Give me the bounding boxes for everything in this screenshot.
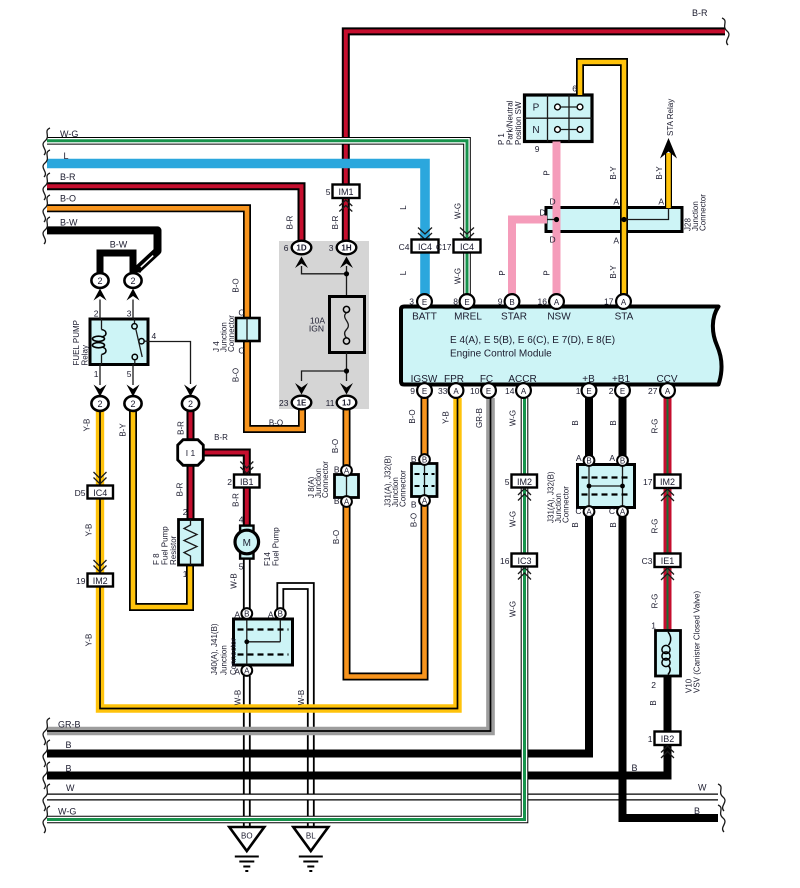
- ECM bottom pin 14 A ACCR: [516, 383, 531, 398]
- svg-text:B-Y: B-Y: [609, 265, 618, 279]
- fuel pump resistor F8: [179, 520, 203, 566]
- wire W-B from fuel pump motor to J40/J41 junction: [243, 555, 251, 609]
- svg-text:B: B: [571, 420, 580, 425]
- svg-text:IM2: IM2: [517, 477, 532, 487]
- wire R-G from ECM CCV to V10 VSV: [664, 398, 672, 631]
- svg-text:W-G: W-G: [509, 601, 518, 617]
- svg-text:VSV (Canister Closed Valve): VSV (Canister Closed Valve): [693, 591, 702, 693]
- svg-text:2: 2: [188, 399, 193, 409]
- svg-text:W: W: [698, 783, 707, 793]
- svg-text:C: C: [609, 506, 615, 516]
- svg-text:1: 1: [94, 369, 99, 379]
- svg-text:B-W: B-W: [60, 218, 78, 228]
- svg-text:5: 5: [239, 562, 244, 572]
- svg-text:A: A: [453, 387, 459, 396]
- svg-text:4: 4: [152, 331, 157, 341]
- svg-text:Resistor: Resistor: [169, 535, 178, 565]
- ECM bottom pin 1 E +B: [582, 383, 597, 398]
- svg-text:A: A: [620, 508, 626, 517]
- svg-text:IE1: IE1: [661, 556, 675, 566]
- svg-text:Engine Control Module: Engine Control Module: [450, 349, 552, 360]
- 10A IGN fuse label: [309, 316, 325, 334]
- svg-text:9: 9: [410, 386, 415, 396]
- svg-text:B-O: B-O: [269, 419, 283, 428]
- svg-text:W-G: W-G: [454, 203, 463, 219]
- svg-text:FPR: FPR: [444, 374, 464, 385]
- svg-text:2: 2: [227, 477, 232, 487]
- svg-text:A: A: [344, 498, 350, 507]
- fuel pump relay box: [90, 319, 148, 365]
- svg-text:NSW: NSW: [547, 312, 571, 323]
- svg-text:D5: D5: [75, 488, 86, 498]
- fuse block oval 1J: [337, 383, 357, 409]
- svg-text:L: L: [399, 270, 408, 275]
- svg-text:A: A: [613, 197, 619, 207]
- svg-text:5: 5: [505, 477, 510, 487]
- ECM name text: [450, 335, 615, 360]
- brace left W-G bus: [43, 128, 50, 155]
- wire W bus: [47, 794, 718, 801]
- svg-text:B-O: B-O: [410, 513, 419, 527]
- svg-text:M: M: [243, 538, 251, 549]
- brace left B bus 2: [43, 762, 50, 789]
- ECM top pin 8 E MREL: [460, 294, 475, 309]
- svg-text:Connector: Connector: [562, 486, 571, 523]
- svg-text:R-G: R-G: [651, 594, 660, 609]
- bus labels right: [631, 8, 708, 816]
- svg-text:A: A: [621, 298, 627, 307]
- relay pin 1 circle and arrow: [91, 364, 108, 411]
- ground BO: [229, 827, 264, 871]
- brace left B-W bus: [43, 217, 50, 244]
- connector 19 IM2 with arrows: [88, 560, 114, 587]
- svg-text:R-G: R-G: [651, 419, 660, 434]
- svg-text:B: B: [620, 457, 625, 466]
- svg-text:16: 16: [538, 297, 548, 307]
- svg-text:P: P: [498, 270, 507, 275]
- svg-text:17: 17: [604, 297, 614, 307]
- svg-text:33: 33: [438, 386, 448, 396]
- svg-text:R-G: R-G: [651, 519, 660, 534]
- connector D5 IC4 with arrows: [88, 472, 114, 499]
- svg-text:1: 1: [651, 621, 656, 631]
- svg-text:6: 6: [572, 84, 577, 94]
- svg-text:B: B: [278, 610, 283, 619]
- svg-text:FC: FC: [480, 374, 493, 385]
- ECM bottom pin 10 E FC: [481, 383, 496, 398]
- svg-text:5: 5: [326, 187, 331, 197]
- J4 junction connector box: [236, 318, 260, 341]
- fuse block oval 1E: [292, 383, 312, 409]
- svg-text:BO: BO: [241, 832, 253, 841]
- svg-text:W-G: W-G: [509, 410, 518, 426]
- svg-text:B-O: B-O: [60, 194, 76, 204]
- wire GR-B from ECM FC to bottom bus: [47, 398, 491, 731]
- wire W-G bus to C17 IC4 and ECM MREL: [47, 141, 467, 294]
- svg-text:MREL: MREL: [454, 312, 482, 323]
- ECM bottom pin 27 A CCV: [660, 383, 675, 398]
- J28 junction connector box: [546, 208, 682, 232]
- svg-text:C: C: [238, 308, 244, 318]
- svg-text:IM1: IM1: [338, 187, 353, 197]
- svg-text:2: 2: [97, 276, 102, 286]
- svg-text:27: 27: [648, 386, 658, 396]
- brace left B-O bus: [43, 195, 50, 222]
- arrowhead to STA relay: [660, 138, 677, 159]
- svg-text:B: B: [411, 454, 417, 464]
- svg-text:A: A: [244, 667, 250, 676]
- svg-text:+B1: +B1: [612, 374, 631, 385]
- brace right top B-R: [722, 18, 729, 45]
- svg-text:A: A: [521, 387, 527, 396]
- svg-text:ACCR: ACCR: [508, 374, 536, 385]
- wire W-B from J40/J41 junction up over and down to ground BL: [280, 586, 311, 827]
- wire B-W bus to fuel pump relay pin 3: [47, 230, 158, 272]
- junction connector octagon I1: [178, 440, 204, 466]
- rotated component names: [72, 99, 708, 693]
- ECM bottom pin 33 A FPR: [449, 383, 464, 398]
- ECM top pin 16 A NSW: [549, 294, 564, 309]
- svg-text:+B: +B: [582, 374, 595, 385]
- svg-text:19: 19: [76, 576, 86, 586]
- relay pin 2 circle and arrow: [91, 273, 108, 319]
- svg-text:D: D: [550, 197, 556, 207]
- svg-text:E: E: [620, 387, 625, 396]
- svg-text:STAR: STAR: [501, 312, 527, 323]
- svg-text:Connector: Connector: [399, 470, 408, 507]
- svg-text:D: D: [550, 235, 556, 245]
- svg-text:6: 6: [284, 243, 289, 253]
- svg-text:B: B: [509, 298, 514, 307]
- J40/J41 junction connector box: [234, 608, 293, 676]
- wire B from V10 VSV to IB2: [664, 675, 672, 732]
- svg-text:BATT: BATT: [412, 312, 437, 323]
- svg-text:W-B: W-B: [230, 573, 239, 588]
- svg-text:W-G: W-G: [60, 129, 78, 139]
- connector C4 IC4 with arrows: [412, 228, 439, 253]
- svg-text:GR-B: GR-B: [475, 408, 484, 428]
- wire B-Y from J28 up to STA relay: [665, 153, 672, 208]
- J28 internal connections: [547, 208, 669, 222]
- svg-text:A: A: [609, 453, 615, 463]
- connector 5 IM2 with arrows: [512, 475, 538, 501]
- svg-text:A: A: [613, 236, 619, 246]
- svg-text:Relay: Relay: [81, 345, 90, 365]
- svg-text:9: 9: [498, 297, 503, 307]
- svg-text:A: A: [554, 298, 560, 307]
- svg-text:3: 3: [127, 309, 132, 319]
- svg-text:B: B: [649, 700, 658, 705]
- svg-text:W-B: W-B: [234, 690, 243, 705]
- svg-text:B-O: B-O: [232, 368, 241, 382]
- fuse block oval 1D: [292, 241, 347, 274]
- wire B bottom bus to V10 VSV via IB2: [47, 743, 668, 776]
- svg-text:2: 2: [609, 386, 614, 396]
- wire B-O bus through J4 junction connector to fuse block 1E: [47, 208, 302, 429]
- svg-text:2: 2: [183, 507, 188, 517]
- wire B-R from I1 right to IB1 and fuel pump: [204, 453, 247, 528]
- svg-text:C: C: [238, 346, 244, 356]
- J31/J32 junction connector box on +B wires: [578, 455, 635, 517]
- svg-text:IM2: IM2: [93, 576, 108, 586]
- svg-text:2: 2: [651, 680, 656, 690]
- svg-text:2: 2: [97, 399, 102, 409]
- svg-text:B: B: [609, 522, 618, 527]
- svg-text:IC4: IC4: [418, 242, 432, 252]
- bus labels left: [58, 129, 81, 817]
- svg-text:Y-B: Y-B: [85, 524, 94, 537]
- svg-text:2: 2: [130, 399, 135, 409]
- fuse block shaded area: [279, 241, 369, 409]
- wire B-R below IM1 to fuse block 1H: [342, 198, 350, 241]
- svg-text:E: E: [586, 387, 591, 396]
- svg-text:1J: 1J: [342, 399, 351, 408]
- brace right B bus: [718, 805, 725, 832]
- svg-text:17: 17: [643, 477, 653, 487]
- J8 junction connector box: [335, 465, 359, 507]
- wire B-R from IM1 up and to top right: [346, 31, 725, 184]
- svg-text:1: 1: [576, 386, 581, 396]
- svg-text:IB1: IB1: [240, 477, 254, 487]
- J31/J32 junction connector box on IGSW wire: [412, 454, 438, 506]
- svg-text:14: 14: [505, 386, 515, 396]
- svg-text:L: L: [399, 205, 408, 210]
- svg-text:3: 3: [409, 297, 414, 307]
- svg-text:B: B: [631, 763, 637, 773]
- V10 VSV Canister Closed Valve: [656, 631, 681, 677]
- svg-text:C17: C17: [436, 242, 452, 252]
- svg-text:B-R: B-R: [176, 482, 185, 496]
- svg-text:B-O: B-O: [332, 530, 341, 544]
- svg-text:C: C: [575, 506, 581, 516]
- rotated wire colour labels: [83, 166, 665, 706]
- wire B-R from I1 down to fuel pump resistor pin 2: [187, 464, 195, 520]
- svg-text:E: E: [486, 387, 491, 396]
- svg-text:W-G: W-G: [454, 268, 463, 284]
- svg-text:A: A: [268, 610, 274, 620]
- relay pin 4 circle and arrow: [182, 385, 199, 411]
- svg-text:STA: STA: [615, 312, 634, 323]
- svg-text:N: N: [532, 125, 539, 136]
- wire Y-B from ECM FPR across bottom and up to relay pin 1 circle: [100, 398, 458, 709]
- svg-text:B-R: B-R: [60, 172, 76, 182]
- svg-text:B-W: B-W: [110, 240, 128, 250]
- svg-text:B-Y: B-Y: [609, 166, 618, 180]
- svg-text:1: 1: [183, 569, 188, 579]
- connector IM1 with arrows: [333, 185, 360, 212]
- brace right W bus: [718, 784, 725, 811]
- svg-text:IM2: IM2: [660, 477, 675, 487]
- connector 1 IB2 with arrows: [655, 732, 681, 759]
- connector C17 IC4 with arrows: [454, 228, 481, 253]
- svg-text:Fuel Pump: Fuel Pump: [272, 527, 281, 566]
- svg-text:E: E: [422, 387, 427, 396]
- svg-text:IC4: IC4: [93, 488, 107, 498]
- svg-text:B: B: [586, 457, 591, 466]
- svg-text:BL: BL: [306, 832, 316, 841]
- svg-text:I 1: I 1: [186, 448, 196, 458]
- svg-text:B-Y: B-Y: [119, 423, 128, 437]
- svg-text:B: B: [244, 610, 249, 619]
- fuel pump motor F14: [235, 526, 259, 559]
- svg-text:J40(A), J41(B): J40(A), J41(B): [210, 623, 219, 675]
- svg-text:IGN: IGN: [309, 324, 324, 334]
- wire W-B from J40/J41 junction down to ground BO: [243, 676, 251, 827]
- svg-text:GR-B: GR-B: [58, 720, 81, 730]
- svg-text:A: A: [234, 667, 240, 677]
- svg-text:B: B: [334, 496, 340, 506]
- svg-text:2: 2: [94, 309, 99, 319]
- svg-text:C4: C4: [399, 242, 410, 252]
- svg-text:Y-B: Y-B: [85, 634, 94, 647]
- ECM top pin 17 A STA: [616, 294, 631, 309]
- svg-text:B: B: [411, 500, 417, 510]
- svg-text:E 4(A), E 5(B), E 6(C), E 7(D): E 4(A), E 5(B), E 6(C), E 7(D), E 8(E): [450, 335, 615, 346]
- svg-text:A: A: [234, 610, 240, 620]
- svg-text:Junction: Junction: [220, 645, 229, 675]
- svg-text:2: 2: [130, 276, 135, 286]
- svg-text:W-G: W-G: [509, 511, 518, 527]
- svg-text:STA Relay: STA Relay: [666, 99, 675, 136]
- svg-text:L: L: [64, 151, 69, 161]
- wire B-Y from P/N switch pin 6 over to J28 and ECM STA: [580, 62, 624, 294]
- svg-text:B: B: [334, 465, 340, 475]
- relay pin 4 wire to circle: [148, 342, 191, 385]
- svg-text:IB2: IB2: [661, 734, 675, 744]
- svg-text:W-B: W-B: [297, 690, 306, 705]
- svg-text:A: A: [658, 197, 664, 207]
- ground BL: [293, 827, 328, 871]
- svg-text:B-O: B-O: [408, 409, 417, 423]
- wire B-R bus to fuse block 1D: [47, 186, 302, 243]
- brace left W-G bottom bus: [43, 806, 50, 833]
- connector C3 IE1 with arrows: [655, 554, 681, 581]
- svg-text:W: W: [66, 783, 75, 793]
- wire B from ECM +B through J31/J32 junction to bottom bus: [47, 398, 589, 754]
- svg-text:B-O: B-O: [232, 278, 241, 292]
- svg-text:1E: 1E: [297, 399, 307, 408]
- svg-text:B-R: B-R: [177, 421, 186, 435]
- svg-text:23: 23: [279, 398, 289, 408]
- svg-text:A: A: [422, 497, 428, 506]
- svg-text:B-R: B-R: [286, 215, 295, 229]
- connector IB1 with arrows: [234, 462, 260, 488]
- svg-text:IC3: IC3: [517, 556, 531, 566]
- svg-text:Y-B: Y-B: [442, 411, 451, 424]
- wire B-O from ECM IGSW through J31/J32 and J8 junctions to fuse block 1J: [347, 398, 425, 677]
- relay pin 3 circle and arrow: [124, 273, 141, 319]
- connector box labels: [93, 187, 675, 744]
- svg-text:P: P: [543, 270, 552, 275]
- svg-text:B-O: B-O: [331, 439, 340, 453]
- svg-text:B: B: [609, 420, 618, 425]
- svg-text:5: 5: [127, 369, 132, 379]
- svg-text:Connector: Connector: [699, 194, 708, 231]
- brace left GR-B bus: [43, 718, 50, 745]
- wire P from P/N switch pin 9 through J28 to ECM NSW: [553, 142, 561, 295]
- ECM bottom pin 9 E IGSW: [417, 383, 432, 398]
- P/N switch P and N labels: [532, 103, 539, 137]
- svg-text:CCV: CCV: [656, 374, 677, 385]
- svg-text:C3: C3: [642, 556, 653, 566]
- ECM box: Engine Control Module: [401, 307, 722, 385]
- fuse 10A IGN: [330, 297, 365, 353]
- connector 16 IC3 with arrows: [512, 554, 538, 580]
- ECM bottom pin 2 E +B1: [615, 383, 630, 398]
- svg-text:A: A: [344, 467, 350, 476]
- wire W-G from ECM ACCR through IM2 and IC3 to bottom bus: [47, 398, 525, 820]
- pin number labels: [75, 84, 665, 745]
- svg-text:W-G: W-G: [58, 807, 76, 817]
- wire L bus to C4 IC4 and ECM BATT: [47, 164, 425, 295]
- svg-text:9: 9: [535, 144, 540, 154]
- ECM top pin 3 E BATT: [417, 294, 432, 309]
- svg-text:Connector: Connector: [227, 315, 236, 352]
- svg-text:4: 4: [239, 515, 244, 525]
- svg-text:B-R: B-R: [214, 433, 228, 442]
- svg-text:1D: 1D: [296, 244, 306, 253]
- svg-text:1: 1: [648, 734, 653, 744]
- svg-text:Connector: Connector: [321, 461, 330, 498]
- svg-text:B: B: [694, 806, 700, 816]
- svg-text:16: 16: [500, 556, 510, 566]
- svg-text:B-R: B-R: [231, 493, 240, 507]
- brace left L bus: [43, 150, 50, 177]
- ECM top pin 9 B STAR: [505, 294, 520, 309]
- svg-text:10: 10: [470, 386, 480, 396]
- brace left B bus 1: [43, 740, 50, 767]
- svg-text:Position SW: Position SW: [514, 101, 523, 145]
- svg-text:E: E: [422, 298, 427, 307]
- svg-text:B: B: [571, 522, 580, 527]
- relay pin 5 circle and arrow: [124, 364, 141, 411]
- wire B-R from relay pin 1 circle to I1: [187, 411, 195, 441]
- brace left B-R bus: [43, 173, 50, 200]
- fuse block output lines to 1E and 1J: [302, 353, 350, 382]
- svg-text:B: B: [66, 740, 72, 750]
- P1 Park/Neutral Position SW box: [525, 95, 593, 142]
- wire B-Y from relay pin 5 circle to fuel pump resistor pin 1: [133, 410, 190, 607]
- svg-text:11: 11: [326, 398, 335, 408]
- svg-text:Y-B: Y-B: [83, 419, 92, 432]
- connector 17 IM2 with arrows: [655, 475, 681, 502]
- svg-text:E: E: [464, 298, 469, 307]
- wire B-W bridge between relay pin 2 and pin 3 circles: [100, 253, 133, 273]
- svg-text:3: 3: [329, 243, 334, 253]
- wire P branch from J28 to ECM STAR: [512, 220, 547, 295]
- brace left W bus: [43, 784, 50, 811]
- svg-text:A: A: [586, 508, 592, 517]
- svg-text:B-R: B-R: [692, 8, 708, 18]
- svg-text:B-R: B-R: [331, 215, 340, 229]
- svg-text:A: A: [576, 453, 582, 463]
- svg-text:A: A: [665, 387, 671, 396]
- svg-text:B-Y: B-Y: [655, 166, 664, 180]
- svg-text:D: D: [539, 208, 545, 218]
- svg-text:8: 8: [453, 297, 458, 307]
- svg-text:B: B: [422, 456, 427, 465]
- wire B from ECM +B1 through J31/J32 junction to bottom right bus: [623, 398, 719, 818]
- svg-text:1H: 1H: [341, 244, 351, 253]
- svg-text:P: P: [533, 103, 540, 114]
- svg-text:IC4: IC4: [460, 242, 474, 252]
- ECM pin name labels: [411, 312, 678, 386]
- fuse block oval 1H: [337, 241, 357, 297]
- svg-text:IGSW: IGSW: [411, 374, 438, 385]
- svg-text:P: P: [543, 170, 552, 175]
- svg-text:B: B: [66, 764, 72, 774]
